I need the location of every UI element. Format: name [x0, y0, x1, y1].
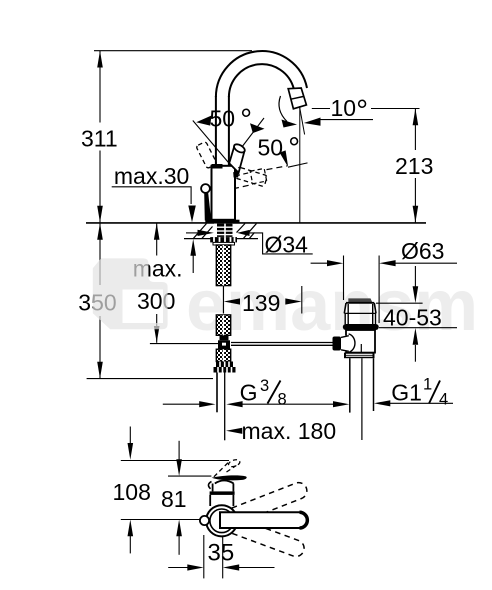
dashed spout position upper — [232, 480, 310, 523]
drain O-ring — [343, 324, 379, 330]
drain flange top — [346, 302, 374, 304]
40-53 vertical line upper with down arrow — [414, 266, 416, 287]
spout inner arc — [229, 64, 294, 97]
108 bottom arrow — [128, 520, 134, 537]
drain Ø63 right extension line — [378, 256, 380, 324]
front view dashed raised lever — [214, 462, 228, 476]
81 extension line — [168, 475, 211, 477]
Ø34 leader line — [249, 233, 313, 254]
50 deg spout swivel ray — [288, 163, 308, 167]
drain tee cylinder — [341, 336, 348, 352]
max.300 dimension line — [156, 223, 158, 256]
svg-text:8: 8 — [278, 390, 287, 408]
max.300 reference line — [150, 343, 218, 345]
front view solid lever — [212, 475, 247, 480]
spout riser tube — [215, 96, 217, 167]
flexible hose middle segment — [216, 315, 230, 335]
Ø63 dimension arrows — [311, 262, 329, 264]
108 extension line top — [121, 460, 229, 462]
faucet body top notch — [212, 164, 223, 169]
35 dimension arrows — [168, 567, 190, 569]
water stream vertical reference line — [299, 106, 301, 223]
handle base black wedge — [233, 171, 239, 178]
svg-text:G: G — [240, 379, 258, 405]
svg-text:3: 3 — [260, 377, 269, 395]
handle cap ellipse — [233, 143, 247, 155]
dashed handle left position — [196, 141, 217, 168]
front view body lower sides — [209, 495, 211, 506]
deck countertop line — [86, 222, 426, 224]
dashed swung spout lower line — [233, 184, 253, 189]
deck bottom line right — [237, 238, 258, 240]
drain upper body — [345, 304, 375, 324]
spout outer arc — [216, 51, 307, 97]
spout nozzle band line — [291, 97, 303, 100]
supply connection nut — [216, 362, 233, 368]
svg-text:35: 35 — [208, 540, 235, 567]
svg-text:4: 4 — [439, 390, 448, 408]
pull rod horizontal to drain — [231, 342, 333, 344]
solid spout bar — [220, 512, 307, 528]
flexible hose upper segment — [216, 245, 230, 286]
dimension 311 bottom arrow — [97, 206, 103, 223]
dashed spout position lower — [232, 518, 306, 559]
deck hatch right — [237, 224, 257, 239]
front view swivel outer circle — [206, 505, 237, 536]
350 reference line — [87, 378, 213, 380]
max.30 underline leader — [112, 187, 191, 204]
svg-text:81: 81 — [161, 486, 187, 512]
dimension 213 top arrow — [413, 109, 419, 126]
35 dimension extension lines — [203, 535, 205, 578]
drain tailpipe — [349, 358, 351, 412]
dimension hole arrows (Ø34) — [186, 232, 199, 234]
dimension 40-53 extension A — [376, 302, 423, 304]
rod knob circle front view — [200, 516, 209, 525]
svg-text:50°: 50° — [210, 103, 253, 136]
svg-text:311: 311 — [81, 125, 118, 151]
max. 180 leader arrow — [226, 428, 242, 434]
dashed swung spout nozzle box — [250, 168, 267, 183]
front view black ring band — [210, 491, 235, 495]
deck hatch left — [194, 224, 213, 239]
dashed swung spout axis continuation — [267, 166, 288, 170]
escutcheon flange — [205, 220, 239, 223]
front view left small arc — [208, 482, 211, 489]
svg-text:300: 300 — [137, 288, 175, 314]
350 top arrow — [97, 223, 103, 240]
50 deg handle swing right ray — [229, 118, 264, 164]
pull rod lower — [224, 373, 226, 441]
faucet body — [212, 166, 236, 220]
svg-text:Ø34: Ø34 — [265, 232, 309, 258]
supply tube — [216, 373, 218, 413]
hose center seams — [222, 245, 224, 286]
hose connector block — [220, 335, 229, 340]
spout nozzle aerator piece — [288, 88, 306, 109]
svg-text:max. 180: max. 180 — [242, 418, 337, 444]
10 deg curved rotation arrow — [279, 96, 287, 122]
10 deg right arrowhead — [304, 118, 321, 126]
81 dimension top line — [178, 441, 180, 461]
dimension 139 — [223, 286, 225, 314]
pop-up plug cap — [348, 298, 372, 302]
G1 1/4 arrow — [374, 400, 390, 406]
drain Ø63 left extension line — [343, 256, 345, 301]
max.300 bottom arrow — [154, 326, 160, 343]
10 deg leader lines — [312, 108, 330, 110]
dashed swung spout upper line — [235, 172, 252, 176]
pull rod knob circle on body — [201, 184, 210, 193]
svg-text:108: 108 — [113, 479, 151, 505]
spout axis extension line — [121, 519, 200, 521]
svg-text:139: 139 — [242, 290, 280, 316]
350 bottom arrow — [97, 362, 103, 379]
svg-text:1: 1 — [423, 376, 432, 394]
svg-text:40-53: 40-53 — [383, 304, 442, 330]
deck bottom line left — [184, 238, 211, 240]
handle lever solid — [229, 146, 244, 173]
flexible hose lower segment — [216, 349, 230, 361]
water stream 10 deg tilted line — [300, 107, 305, 135]
drain body inner line — [360, 344, 362, 352]
front view dome arc — [215, 480, 234, 483]
front view body sides — [212, 484, 214, 492]
svg-text:max.30: max.30 — [114, 163, 189, 189]
dashed handle right position — [235, 167, 268, 187]
max.30 down arrow — [188, 206, 196, 223]
40-53 vertical line lower with up arrow — [414, 345, 416, 362]
50 deg handle swing left ray — [193, 121, 230, 164]
front view swivel inner circle — [210, 509, 234, 533]
pull rod tee — [218, 340, 230, 349]
dimension 311 vertical line — [99, 51, 101, 123]
svg-text:Ø63: Ø63 — [401, 238, 444, 264]
svg-text:50°: 50° — [258, 132, 301, 165]
50 deg left arc arrowhead — [196, 116, 211, 126]
drain lock nut — [344, 353, 375, 359]
50 deg spout swivel arrowhead — [280, 150, 289, 167]
drain flange taper — [344, 303, 376, 313]
max.300 top arrow — [154, 223, 160, 240]
pull rod knob stem black — [204, 193, 211, 221]
dimension 40-53 extension B — [379, 327, 457, 329]
max.30 bottom up arrow at deck underside — [190, 239, 196, 256]
drain body — [346, 330, 375, 353]
50 deg right arc arrowhead — [250, 123, 265, 133]
dimension 213 vertical line — [414, 109, 416, 151]
81 bottom arrow — [176, 520, 182, 537]
washer under nut — [213, 242, 235, 245]
threaded shank — [214, 224, 233, 237]
108 dimension top line — [129, 427, 131, 446]
mounting nut castellated — [210, 237, 237, 242]
drain tee knob black — [333, 337, 342, 351]
svg-text:G1: G1 — [391, 379, 422, 405]
watermark logo overlay — [93, 258, 168, 329]
svg-text:213: 213 — [395, 153, 433, 179]
dimension 311 top arrow — [97, 51, 103, 68]
dimension 350 line — [99, 223, 101, 285]
G3/8 dimension arrows — [163, 403, 200, 405]
dimension 213 bottom arrow — [413, 206, 419, 223]
top reference line at spout apex — [94, 50, 252, 52]
hose centerline break — [222, 286, 224, 314]
